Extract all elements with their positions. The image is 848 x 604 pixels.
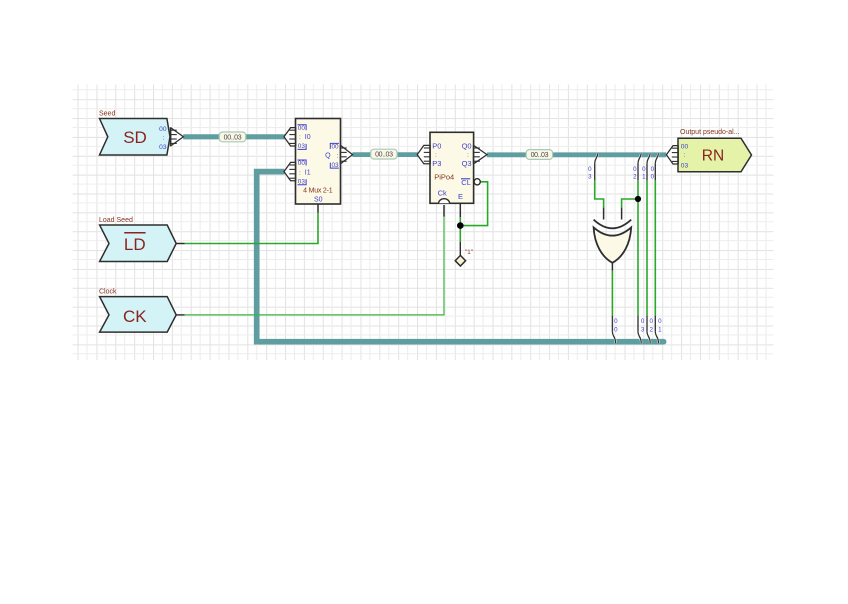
svg-text:Q3: Q3 [462,159,472,168]
svg-text:S0: S0 [314,196,323,203]
svg-text:CK: CK [123,307,147,326]
svg-text:Q: Q [325,153,331,160]
svg-text:00: 00 [159,126,167,133]
svg-text:00: 00 [331,144,339,151]
svg-text:00: 00 [298,160,306,167]
svg-text:00..03: 00..03 [375,152,393,159]
svg-text:0: 0 [651,174,655,181]
svg-text::: : [435,152,437,159]
svg-text:Clock: Clock [99,289,117,296]
svg-text:Load Seed: Load Seed [99,217,133,224]
svg-text::: : [467,152,469,159]
svg-text:00: 00 [681,143,689,150]
svg-text::: : [163,134,165,141]
svg-text:I0: I0 [305,134,311,141]
svg-text:3: 3 [641,326,645,333]
svg-text:1: 1 [658,326,662,333]
svg-text:Output pseudo-al...: Output pseudo-al... [680,129,740,136]
svg-text::: : [684,152,686,159]
svg-text::: : [299,169,301,176]
svg-text:I1: I1 [305,169,311,176]
svg-text:Seed: Seed [99,111,115,118]
svg-text:E: E [458,192,463,201]
svg-text::: : [299,134,301,141]
svg-text:PiPo4: PiPo4 [434,172,454,181]
svg-text:03: 03 [681,162,689,169]
svg-text:0: 0 [641,318,645,325]
svg-text:0: 0 [651,166,655,173]
svg-text:2: 2 [649,326,653,333]
svg-text:0: 0 [614,318,618,325]
svg-text:00: 00 [298,125,306,132]
svg-text:2: 2 [633,174,637,181]
svg-text:Q0: Q0 [462,141,472,150]
svg-text:P0: P0 [432,141,441,150]
svg-text:3: 3 [588,174,592,181]
svg-text::: : [337,153,339,160]
svg-text:P3: P3 [432,159,441,168]
svg-text:0: 0 [642,166,646,173]
svg-text:0: 0 [633,166,637,173]
svg-text:0: 0 [614,326,618,333]
svg-text:0: 0 [649,318,653,325]
svg-text:1: 1 [642,174,646,181]
svg-text:0: 0 [658,318,662,325]
svg-text:00..03: 00..03 [531,152,549,159]
svg-text:Ck: Ck [438,188,447,197]
svg-text:00..03: 00..03 [224,135,242,142]
svg-text:"1": "1" [465,249,474,256]
svg-text:4 Mux 2-1: 4 Mux 2-1 [303,188,333,195]
svg-text:LD: LD [124,235,146,254]
svg-text:SD: SD [123,128,147,147]
svg-text:0: 0 [588,166,592,173]
svg-text:RN: RN [702,147,724,164]
svg-text:03: 03 [159,144,167,151]
